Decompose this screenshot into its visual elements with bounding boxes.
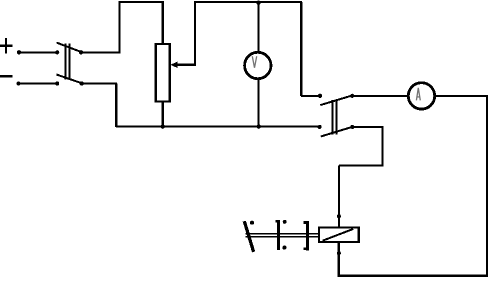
wire: down to coil box top [338, 166, 340, 228]
S2 bottom blade [321, 127, 352, 137]
node: coil bottom terminal dot [337, 251, 341, 255]
node: S2 bottom-right terminal dot [350, 125, 354, 129]
wire: jog left [339, 165, 384, 167]
wire: up from bottom to coil box [338, 242, 340, 277]
wire: ammeter to right edge [435, 95, 487, 97]
node: negative supply terminal dot [16, 81, 20, 85]
wire: down to rheostat top [162, 2, 164, 45]
wire: into S2 top-left terminal [301, 95, 320, 97]
wire: right vertical down [486, 95, 488, 276]
wire: down to switch S2 [300, 2, 302, 96]
S2 top blade [320, 96, 352, 106]
switch S2 (double-pole knife switch, right) [318, 94, 355, 137]
wire: top bus to right [194, 1, 302, 3]
support bracket 1 (middle bar) [276, 220, 287, 250]
S1 bottom blade [56, 75, 81, 84]
battery negative terminal symbol - [0, 75, 13, 77]
S2 mechanical link (double line) [332, 100, 334, 135]
node: voltmeter bottom junction dot [257, 124, 261, 128]
wire: + terminal to switch S1 top pole [19, 51, 57, 53]
wire: wiper riser up [194, 2, 196, 66]
rheostat wiper arrow [170, 62, 195, 68]
voltmeter V (circle) [245, 52, 271, 78]
node: S1 bottom-left terminal dot [55, 81, 59, 85]
S1 mechanical link (double line) [65, 44, 67, 80]
battery positive terminal symbol + [0, 38, 13, 53]
voltmeter branch bottom wire [257, 79, 259, 127]
node: S2 top-left terminal dot [318, 94, 322, 98]
lever (slanted bar, far left) [244, 221, 253, 252]
wire: long bottom bus [116, 125, 320, 127]
node: lever pivot dot [250, 221, 254, 225]
node: S1 bottom-right terminal dot [80, 81, 84, 85]
node: S2 top-right terminal dot [350, 94, 354, 98]
wire: - terminal to switch S1 bottom pole [19, 83, 58, 85]
node: S1 top-right terminal dot [79, 50, 83, 54]
node: S1 top-left terminal dot [55, 50, 59, 54]
node: bracket 1 bottom dot [282, 246, 286, 250]
node: coil top terminal dot [337, 214, 341, 218]
wire: lower riser down [115, 84, 117, 128]
node: bracket 1 top dot [283, 220, 287, 224]
node: positive supply terminal dot [17, 50, 21, 54]
voltmeter letter V [252, 56, 256, 67]
ammeter A (circle) [408, 83, 434, 109]
voltmeter V branch top wire [257, 2, 259, 53]
wire: top-left horizontal [118, 1, 163, 3]
node: voltmeter top junction dot [256, 0, 260, 4]
coil box K (rectangle with diagonal) [319, 228, 359, 242]
wire: rheostat bottom stub [162, 102, 164, 128]
support bracket 2 (bar with left serifs) [303, 221, 307, 250]
armature shaft (double line) [246, 234, 319, 237]
node: rheostat bottom junction dot [161, 124, 165, 128]
rheostat R1 (vertical resistor box) [156, 44, 170, 102]
wire: bottom horizontal [339, 275, 488, 277]
S1 top blade [57, 43, 81, 52]
wire: left riser up [118, 2, 120, 53]
wire: S2 bottom jog right [352, 126, 383, 128]
wire: S2 top to ammeter [352, 95, 408, 97]
node: S2 bottom-left terminal dot [318, 125, 322, 129]
wire: jog down [381, 127, 383, 167]
switch S1 (double-pole knife switch, left) [55, 43, 84, 86]
wire: S1 top to left riser [81, 51, 121, 53]
ammeter letter A [416, 88, 420, 101]
wire: S1 bottom to lower riser [82, 83, 118, 85]
